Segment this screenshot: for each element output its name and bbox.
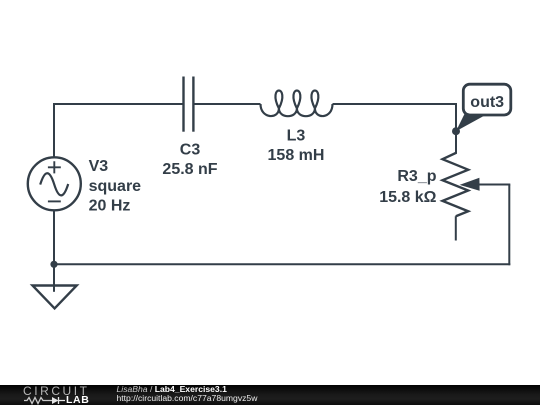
svg-text:out3: out3 (470, 94, 504, 111)
out3 flag box (463, 84, 511, 115)
R3_p wiper arrowhead (460, 178, 480, 191)
svg-text:R3_p: R3_p (397, 168, 436, 185)
label V3 value (89, 127, 437, 214)
wire right vertical (508, 185, 510, 266)
wire top rail left segment (53, 103, 184, 105)
svg-text:C3: C3 (180, 142, 201, 159)
footer titles (117, 385, 258, 404)
svg-text:158 mH: 158 mH (268, 147, 325, 164)
CircuitLab logo wordmark (23, 386, 90, 396)
svg-text:15.8 kΩ: 15.8 kΩ (379, 189, 436, 206)
footer bar (0, 385, 540, 406)
wire L3 to corner (333, 103, 458, 105)
inductor L3 (261, 90, 333, 116)
svg-text:L3: L3 (287, 127, 306, 144)
svg-text:20 Hz: 20 Hz (89, 198, 131, 215)
wire corner down to R3_p (455, 103, 457, 153)
wire V3 bottom (53, 210, 55, 264)
wire wiper horizontal (477, 184, 510, 186)
svg-text:square: square (89, 178, 142, 195)
svg-text:V3: V3 (89, 158, 109, 175)
capacitor C3 (184, 77, 194, 132)
wire ground stub (53, 264, 55, 292)
wire V3 top to rail (53, 104, 55, 158)
svg-text:25.8 nF: 25.8 nF (162, 161, 217, 178)
wire bottom rail (53, 263, 510, 265)
ground (33, 286, 77, 309)
junction dot ground node (50, 261, 57, 268)
logo resistor-diode glyph (24, 396, 68, 405)
R3_p bottom stub (455, 216, 457, 240)
node dot out3 (452, 127, 460, 135)
potentiometer R3_p zigzag (443, 152, 469, 216)
wire C3 to L3 (193, 103, 260, 105)
voltage source V3 (28, 157, 81, 210)
out3 flag pointer (456, 114, 484, 132)
